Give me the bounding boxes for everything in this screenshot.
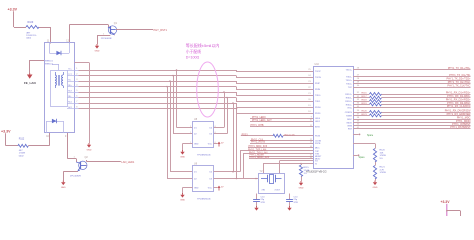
svg-text:MDIO: MDIO <box>347 122 353 124</box>
svg-text:LAN_LED1: LAN_LED1 <box>121 160 135 164</box>
svg-text:RXER: RXER <box>346 115 352 117</box>
svg-text:XO: XO <box>315 161 318 163</box>
svg-text:小于配线: 小于配线 <box>186 49 201 54</box>
svg-text:XIN: XIN <box>262 189 266 191</box>
svg-text:TPD4E05U06: TPD4E05U06 <box>197 198 211 200</box>
svg-text:RST: RST <box>348 129 353 131</box>
svg-text:RXD2+: RXD2+ <box>345 101 353 103</box>
svg-text:TPD4E05U06: TPD4E05U06 <box>197 154 211 156</box>
svg-text:14: 14 <box>310 146 312 148</box>
svg-text:1: 1 <box>190 126 191 128</box>
svg-text:GND: GND <box>180 156 185 158</box>
svg-text:TD+: TD+ <box>68 68 71 70</box>
svg-text:VCC: VCC <box>208 143 213 145</box>
svg-text:GND: GND <box>87 149 92 151</box>
svg-text:PHY1_LED1_ACT: PHY1_LED1_ACT <box>252 119 272 122</box>
svg-text:16: 16 <box>310 157 312 159</box>
svg-text:X7R: X7R <box>261 202 266 204</box>
svg-text:R109: R109 <box>28 21 34 24</box>
svg-text:12.1K: 12.1K <box>304 170 310 172</box>
svg-text:TXON: TXON <box>315 77 321 79</box>
svg-text:R120: R120 <box>362 110 368 112</box>
svg-text:R119: R119 <box>362 103 368 105</box>
svg-text:1%: 1% <box>304 173 307 175</box>
svg-text:GND: GND <box>194 143 199 145</box>
svg-text:0402: 0402 <box>19 155 25 157</box>
svg-text:RXD1: RXD1 <box>315 113 321 115</box>
svg-text:TXD1: TXD1 <box>315 101 321 103</box>
svg-text:R117: R117 <box>362 96 368 98</box>
svg-text:9: 9 <box>311 117 312 119</box>
svg-text:U10: U10 <box>315 63 320 66</box>
svg-text:PHY1_INTB: PHY1_INTB <box>251 124 264 127</box>
svg-text:TXD2-: TXD2- <box>346 83 352 85</box>
svg-text:RXIN: RXIN <box>315 89 320 91</box>
svg-text:0402: 0402 <box>26 37 32 39</box>
svg-text:Spare: Spare <box>367 134 374 137</box>
svg-text:1/16W: 1/16W <box>380 172 387 174</box>
svg-text:NC2: NC2 <box>68 107 72 109</box>
svg-text:TXP: TXP <box>315 151 320 153</box>
svg-text:RXD2-: RXD2- <box>346 104 353 106</box>
svg-text:6: 6 <box>215 132 216 134</box>
svg-text:2PC4081R: 2PC4081R <box>101 38 112 40</box>
svg-text:TD-: TD- <box>68 79 71 81</box>
svg-text:TXN: TXN <box>315 154 320 156</box>
svg-text:TXD0: TXD0 <box>315 95 321 97</box>
svg-text:TXD1+: TXD1+ <box>345 69 352 71</box>
svg-text:PHY1_RX_ER/RXER: PHY1_RX_ER/RXER <box>447 113 471 116</box>
svg-text:10: 10 <box>310 120 312 122</box>
svg-text:+3.3V: +3.3V <box>8 7 18 11</box>
svg-text:INTB: INTB <box>315 127 320 129</box>
svg-text:X7R: X7R <box>294 202 299 204</box>
svg-text:R121: R121 <box>362 114 368 116</box>
svg-text:PHY1_RSTB/RST: PHY1_RSTB/RST <box>450 126 471 129</box>
svg-text:TXOP: TXOP <box>315 71 321 73</box>
svg-text:SHIELD2: SHIELD2 <box>45 63 53 65</box>
svg-text:PHY1_RSTB: PHY1_RSTB <box>251 141 265 144</box>
svg-text:R118: R118 <box>362 99 368 101</box>
svg-text:1: 1 <box>190 132 191 134</box>
svg-text:D=100Ω: D=100Ω <box>186 56 200 60</box>
svg-text:FE_LAN: FE_LAN <box>24 81 36 85</box>
svg-text:RSTB: RSTB <box>315 143 321 145</box>
svg-text:R120: R120 <box>380 150 386 152</box>
svg-text:6: 6 <box>215 126 216 128</box>
svg-text:TXD2+: TXD2+ <box>345 80 352 82</box>
svg-text:RXD0: RXD0 <box>315 107 321 109</box>
svg-text:1: 1 <box>190 142 191 144</box>
svg-text:R113 2.2K: R113 2.2K <box>285 134 296 136</box>
svg-text:INTB: INTB <box>347 125 352 127</box>
svg-text:PHY1_TX_CLK/TXC: PHY1_TX_CLK/TXC <box>447 84 470 87</box>
svg-text:11: 11 <box>310 125 312 127</box>
svg-text:RXD1-: RXD1- <box>346 98 353 100</box>
svg-text:GND: GND <box>95 50 100 52</box>
svg-text:R115: R115 <box>304 167 310 169</box>
svg-text:PHY1_TX_D1+/TD+: PHY1_TX_D1+/TD+ <box>448 67 471 70</box>
svg-text:4.7K: 4.7K <box>380 169 385 171</box>
svg-text:GND: GND <box>373 187 378 189</box>
svg-text:CRSDV: CRSDV <box>345 112 353 114</box>
svg-text:2PC4081R: 2PC4081R <box>70 175 81 177</box>
svg-text:RD-: RD- <box>68 96 72 98</box>
svg-text:RXD1+: RXD1+ <box>345 94 353 96</box>
svg-text:GND: GND <box>180 199 185 201</box>
svg-text:R116: R116 <box>362 92 368 94</box>
svg-text:MDC: MDC <box>347 119 352 121</box>
svg-text:PD33: PD33 <box>315 136 321 138</box>
svg-text:VCC: VCC <box>208 187 213 189</box>
svg-text:RXIP: RXIP <box>315 83 320 85</box>
svg-text:LED1: LED1 <box>315 121 321 123</box>
svg-text:TXC: TXC <box>348 87 353 89</box>
svg-text:1/16W: 1/16W <box>380 155 387 157</box>
svg-text:GND: GND <box>61 187 66 189</box>
svg-text:SHIELD1: SHIELD1 <box>45 60 53 62</box>
svg-text:PHY1_RX_D2-/RD2-: PHY1_RX_D2-/RD2- <box>447 102 471 105</box>
svg-text:5%: 5% <box>380 158 383 160</box>
svg-text:XOUT: XOUT <box>275 189 281 191</box>
svg-text:Spare: Spare <box>359 156 366 159</box>
svg-text:NC1: NC1 <box>68 101 72 103</box>
svg-text:R121: R121 <box>380 167 386 169</box>
svg-text:R112: R112 <box>19 138 25 141</box>
svg-text:TXD1-: TXD1- <box>346 76 352 78</box>
svg-text:PHY1_RX_D1+/RD1+: PHY1_RX_D1+/RD1+ <box>446 91 471 94</box>
svg-text:13: 13 <box>310 142 312 144</box>
svg-text:RD+: RD+ <box>68 85 72 87</box>
svg-text:PHY_RST1: PHY_RST1 <box>154 28 168 32</box>
svg-text:GND: GND <box>299 187 304 189</box>
svg-text:等长配线±5mil以内: 等长配线±5mil以内 <box>186 42 220 48</box>
svg-text:6: 6 <box>215 142 216 144</box>
svg-text:MDC: MDC <box>315 148 320 150</box>
svg-text:+3.3V: +3.3V <box>441 200 451 204</box>
svg-text:1/16W: 1/16W <box>19 153 26 155</box>
svg-text:GND: GND <box>194 187 199 189</box>
svg-text:PHY1_RX_CLK/RXC: PHY1_RX_CLK/RXC <box>447 105 471 108</box>
svg-text:RXC: RXC <box>348 108 353 110</box>
svg-text:+3.3V: +3.3V <box>1 129 11 133</box>
svg-text:10K: 10K <box>380 152 384 154</box>
svg-text:LED0: LED0 <box>315 118 321 120</box>
svg-text:PHY1_TXN_LAN: PHY1_TXN_LAN <box>249 151 268 154</box>
svg-text:PHY1_MDIO_3V3: PHY1_MDIO_3V3 <box>250 156 270 159</box>
svg-text:PD33: PD33 <box>242 133 249 136</box>
